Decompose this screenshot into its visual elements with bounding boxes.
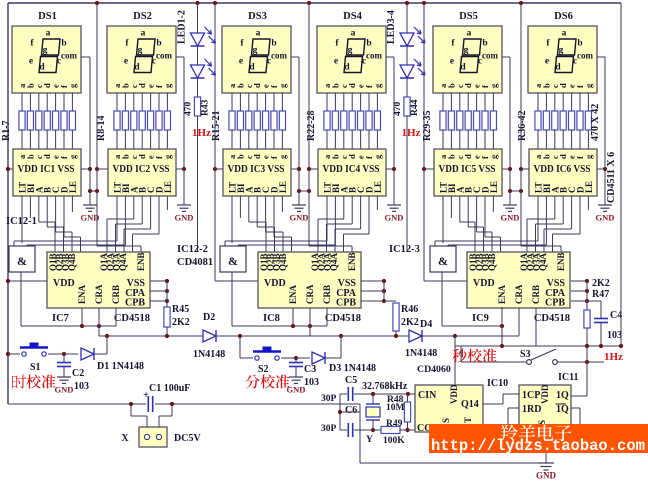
svg-text:ENA: ENA xyxy=(288,284,298,304)
svg-text:a: a xyxy=(351,29,356,39)
svg-text:g: g xyxy=(583,83,593,88)
svg-text:VDD: VDD xyxy=(53,278,75,289)
svg-text:C5: C5 xyxy=(345,375,357,386)
svg-text:&: & xyxy=(438,254,448,268)
svg-text:DS6: DS6 xyxy=(554,11,573,22)
svg-text:e: e xyxy=(545,57,549,67)
svg-text:VDD IC5 VSS: VDD IC5 VSS xyxy=(439,164,496,175)
svg-text:b: b xyxy=(156,39,161,49)
svg-text:GND: GND xyxy=(290,213,309,223)
svg-text:S: S xyxy=(441,418,451,423)
svg-text:LE: LE xyxy=(68,181,78,193)
svg-text:470: 470 xyxy=(184,102,194,117)
svg-text:R1-7: R1-7 xyxy=(1,120,12,141)
svg-text:g: g xyxy=(67,83,77,88)
svg-text:g: g xyxy=(277,83,287,88)
svg-text:g: g xyxy=(253,46,258,56)
svg-text:30P: 30P xyxy=(321,394,337,404)
svg-text:Q4A: Q4A xyxy=(118,252,128,271)
svg-text:e: e xyxy=(29,57,33,67)
svg-text:Q4B: Q4B xyxy=(487,253,497,271)
svg-text:R36-42: R36-42 xyxy=(517,110,528,141)
svg-text:470: 470 xyxy=(393,102,403,117)
svg-text:S2: S2 xyxy=(258,364,269,375)
svg-text:DS5: DS5 xyxy=(459,11,478,22)
svg-text:g: g xyxy=(464,46,469,56)
svg-text:2K2: 2K2 xyxy=(172,317,190,328)
svg-text:IC7: IC7 xyxy=(52,313,69,324)
svg-text:d: d xyxy=(344,63,350,73)
svg-text:a: a xyxy=(141,29,146,39)
svg-text:D2: D2 xyxy=(203,312,215,323)
svg-text:DS4: DS4 xyxy=(343,11,362,22)
svg-text:1Q: 1Q xyxy=(556,390,569,401)
svg-text:b: b xyxy=(482,39,487,49)
svg-text:S3: S3 xyxy=(520,349,531,360)
svg-text:1Hz: 1Hz xyxy=(192,127,211,139)
svg-text:ENB: ENB xyxy=(556,252,566,271)
svg-text:GND: GND xyxy=(175,213,194,223)
svg-text:g: g xyxy=(43,46,48,56)
svg-text:IC11: IC11 xyxy=(558,372,579,383)
svg-text:g: g xyxy=(372,154,382,159)
svg-text:GND: GND xyxy=(536,471,557,481)
svg-text:D4: D4 xyxy=(420,319,432,330)
svg-text:g: g xyxy=(162,83,172,88)
svg-text:DS3: DS3 xyxy=(248,11,267,22)
svg-text:d: d xyxy=(39,63,45,73)
svg-text:CRA: CRA xyxy=(514,284,524,304)
svg-text:Q4B: Q4B xyxy=(67,253,77,271)
svg-text:a: a xyxy=(46,29,51,39)
svg-text:CD4518: CD4518 xyxy=(534,313,570,324)
svg-text:com: com xyxy=(577,51,593,61)
svg-text:&: & xyxy=(17,254,27,268)
svg-text:VDD: VDD xyxy=(449,384,459,404)
svg-text:ENA: ENA xyxy=(77,284,87,304)
svg-text:b: b xyxy=(366,39,371,49)
svg-text:C2: C2 xyxy=(72,368,84,379)
svg-text:C6: C6 xyxy=(345,405,357,416)
svg-text:LE: LE xyxy=(163,181,173,193)
svg-text:R45: R45 xyxy=(172,304,189,315)
svg-text:R46: R46 xyxy=(401,304,418,315)
svg-text:CRB: CRB xyxy=(531,285,541,304)
svg-text:com: com xyxy=(482,51,498,61)
svg-text:470 X 42: 470 X 42 xyxy=(590,104,601,141)
svg-text:LED3-4: LED3-4 xyxy=(386,10,397,44)
svg-text:1Hz: 1Hz xyxy=(402,127,421,139)
svg-text:R8-14: R8-14 xyxy=(96,115,107,141)
svg-text:g: g xyxy=(67,154,77,159)
svg-text:g: g xyxy=(138,46,143,56)
svg-text:LED1-2: LED1-2 xyxy=(177,10,188,44)
svg-text:d: d xyxy=(555,63,561,73)
svg-text:g: g xyxy=(488,154,498,159)
svg-text:IC12-3: IC12-3 xyxy=(389,244,420,255)
svg-text:1Q: 1Q xyxy=(556,404,569,415)
svg-text:Q4A: Q4A xyxy=(538,252,548,271)
svg-text:g: g xyxy=(559,46,564,56)
svg-text:e: e xyxy=(124,57,128,67)
svg-text:DS1: DS1 xyxy=(38,11,57,22)
svg-text:CPB: CPB xyxy=(125,298,145,309)
svg-text:R22-28: R22-28 xyxy=(306,110,317,141)
svg-text:1CP: 1CP xyxy=(522,390,540,401)
svg-text:com: com xyxy=(156,51,172,61)
svg-text:VDD: VDD xyxy=(540,384,550,404)
svg-text:GND: GND xyxy=(596,213,615,223)
svg-text:g: g xyxy=(162,154,172,159)
svg-text:IC8: IC8 xyxy=(263,313,280,324)
svg-text:VDD IC6 VSS: VDD IC6 VSS xyxy=(534,164,591,175)
svg-text:IC12-1: IC12-1 xyxy=(6,216,37,227)
svg-text:VDD IC2 VSS: VDD IC2 VSS xyxy=(113,164,170,175)
svg-text:CIN: CIN xyxy=(418,390,437,401)
svg-text:b: b xyxy=(577,39,582,49)
svg-text:R44: R44 xyxy=(410,99,420,116)
svg-text:DC5V: DC5V xyxy=(174,433,201,444)
svg-text:10M: 10M xyxy=(386,403,405,413)
svg-text:g: g xyxy=(372,83,382,88)
svg-text:2K2: 2K2 xyxy=(401,317,419,328)
svg-text:CRB: CRB xyxy=(322,285,332,304)
svg-text:b: b xyxy=(61,39,66,49)
svg-text:1Hz: 1Hz xyxy=(604,351,623,363)
svg-text:1RD: 1RD xyxy=(522,404,541,415)
svg-text:LE: LE xyxy=(489,181,499,193)
svg-text:g: g xyxy=(348,46,353,56)
svg-text:CD4060: CD4060 xyxy=(417,364,451,375)
svg-text:C3: C3 xyxy=(304,364,316,375)
svg-text:a: a xyxy=(256,29,261,39)
svg-text:R15-21: R15-21 xyxy=(211,110,222,141)
svg-text:VDD IC3 VSS: VDD IC3 VSS xyxy=(228,164,285,175)
svg-text:com: com xyxy=(271,51,287,61)
svg-text:LE: LE xyxy=(373,181,383,193)
svg-text:CRA: CRA xyxy=(305,284,315,304)
svg-text:e: e xyxy=(334,57,338,67)
svg-text:103: 103 xyxy=(607,330,622,341)
svg-text:D3 1N4148: D3 1N4148 xyxy=(329,363,376,374)
svg-text:X: X xyxy=(121,433,129,444)
svg-text:R47: R47 xyxy=(592,289,609,300)
svg-text:Q4B: Q4B xyxy=(278,253,288,271)
svg-text:d: d xyxy=(134,63,140,73)
svg-text:1N4148: 1N4148 xyxy=(405,348,437,359)
svg-text:IC12-2: IC12-2 xyxy=(177,244,208,255)
svg-text:com: com xyxy=(61,51,77,61)
svg-text:a: a xyxy=(562,29,567,39)
svg-text:R49: R49 xyxy=(386,419,403,429)
svg-text:ENB: ENB xyxy=(136,252,146,271)
svg-text:ENA: ENA xyxy=(497,284,507,304)
svg-text:C4: C4 xyxy=(610,310,622,321)
svg-text:1N4148: 1N4148 xyxy=(193,349,225,360)
svg-text:R43: R43 xyxy=(201,99,211,116)
svg-text:e: e xyxy=(239,57,243,67)
svg-text:Y: Y xyxy=(366,435,373,445)
svg-text:GND: GND xyxy=(55,385,74,395)
svg-text:VDD IC1 VSS: VDD IC1 VSS xyxy=(18,164,75,175)
svg-text:http://lydzs.taobao.com: http://lydzs.taobao.com xyxy=(431,437,645,455)
svg-text:LE: LE xyxy=(278,181,288,193)
svg-text:103: 103 xyxy=(74,381,89,392)
svg-text:100K: 100K xyxy=(383,436,405,446)
svg-text:VDD IC4 VSS: VDD IC4 VSS xyxy=(323,164,380,175)
svg-text:LE: LE xyxy=(584,181,594,193)
svg-text:Q4A: Q4A xyxy=(329,252,339,271)
svg-text:103: 103 xyxy=(304,377,319,388)
svg-text:com: com xyxy=(366,51,382,61)
svg-text:2K2: 2K2 xyxy=(592,278,610,289)
svg-text:b: b xyxy=(271,39,276,49)
svg-text:C1 100uF: C1 100uF xyxy=(149,383,190,394)
svg-text:D1 1N4148: D1 1N4148 xyxy=(97,361,144,372)
svg-text:d: d xyxy=(249,63,255,73)
svg-text:30P: 30P xyxy=(321,424,337,434)
svg-text:GND: GND xyxy=(287,385,306,395)
svg-text:32.768kHz: 32.768kHz xyxy=(362,381,408,392)
svg-text:DS2: DS2 xyxy=(133,11,152,22)
svg-text:IC10: IC10 xyxy=(487,378,508,389)
svg-text:CPB: CPB xyxy=(336,298,356,309)
svg-text:g: g xyxy=(277,154,287,159)
svg-text:GND: GND xyxy=(385,213,404,223)
svg-text:CRB: CRB xyxy=(111,285,121,304)
svg-text:CD4518: CD4518 xyxy=(325,313,361,324)
svg-text:d: d xyxy=(460,63,466,73)
svg-text:g: g xyxy=(488,83,498,88)
svg-text:ENB: ENB xyxy=(347,252,357,271)
svg-text:CD4081: CD4081 xyxy=(177,257,213,268)
svg-text:CPB: CPB xyxy=(545,298,565,309)
svg-text:a: a xyxy=(467,29,472,39)
svg-text:&: & xyxy=(228,254,238,268)
svg-text:IC9: IC9 xyxy=(472,313,489,324)
svg-text:Q14: Q14 xyxy=(461,399,479,410)
svg-text:S1: S1 xyxy=(30,362,41,373)
svg-text:g: g xyxy=(583,154,593,159)
svg-text:VDD: VDD xyxy=(264,278,286,289)
svg-text:T: T xyxy=(463,417,473,423)
svg-text:GND: GND xyxy=(501,213,520,223)
svg-text:VDD: VDD xyxy=(473,278,495,289)
svg-text:CD4518: CD4518 xyxy=(114,313,150,324)
svg-text:CRA: CRA xyxy=(94,284,104,304)
svg-text:CD4511 X 6: CD4511 X 6 xyxy=(606,152,617,203)
svg-text:e: e xyxy=(450,57,454,67)
